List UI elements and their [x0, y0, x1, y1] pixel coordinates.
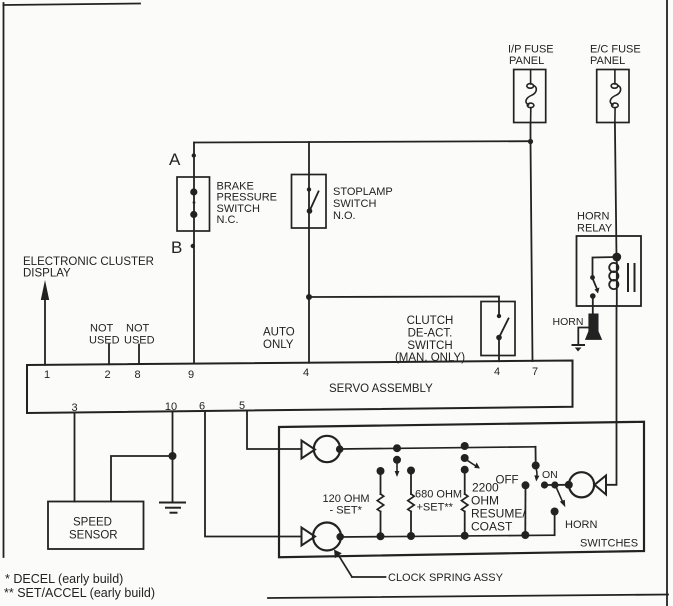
- wire pin 3 to speed sensor: [74, 412, 76, 501]
- node B: [171, 238, 195, 257]
- svg-text:HORN: HORN: [565, 519, 597, 531]
- label SWITCHES: [580, 538, 638, 550]
- label ON: [542, 469, 558, 481]
- svg-text:BRAKE: BRAKE: [217, 181, 254, 193]
- svg-text:4: 4: [303, 367, 309, 379]
- I/P fuse panel label: [508, 44, 554, 68]
- svg-text:SERVO ASSEMBLY: SERVO ASSEMBLY: [329, 383, 433, 395]
- svg-text:STOPLAMP: STOPLAMP: [333, 186, 393, 198]
- svg-text:DE-ACT.: DE-ACT.: [408, 328, 453, 340]
- arrow to cluster display: [41, 280, 49, 365]
- E/C fuse panel box: [597, 70, 629, 123]
- wire pin 6 to buffer B2: [205, 411, 302, 537]
- svg-text:2: 2: [104, 369, 110, 381]
- servo assembly box: [27, 361, 573, 414]
- relay coil: [609, 257, 618, 306]
- svg-text:OHM: OHM: [471, 494, 499, 508]
- horn relay label: [577, 211, 613, 235]
- label HORN (switches): [565, 519, 597, 531]
- svg-text:ONLY: ONLY: [263, 339, 294, 351]
- svg-text:SWITCH: SWITCH: [407, 340, 452, 352]
- footnote SET/ACCEL: [4, 586, 155, 600]
- svg-text:N.C.: N.C.: [217, 214, 239, 226]
- resistor R2 680 ohm: [407, 467, 415, 541]
- on contacts and wire to buffer B3: [541, 481, 573, 489]
- label HORN: [553, 316, 584, 328]
- label 680 OHM +SET**: [415, 489, 462, 514]
- buffer B3 (horn buffer): [569, 472, 606, 497]
- wire branch to speed sensor: [111, 456, 173, 502]
- relay switch: [590, 257, 617, 314]
- svg-text:SWITCH: SWITCH: [217, 203, 260, 215]
- junction stoplamp/clutch: [306, 294, 312, 300]
- svg-text:HORN: HORN: [577, 211, 609, 223]
- svg-text:- SET*: - SET*: [330, 505, 363, 517]
- svg-text:+SET**: +SET**: [417, 502, 454, 514]
- svg-text:COAST: COAST: [471, 520, 513, 534]
- border frame bottom: [268, 595, 668, 599]
- svg-text:DISPLAY: DISPLAY: [23, 268, 71, 280]
- svg-text:N.O.: N.O.: [333, 210, 356, 222]
- clutch de-act switch label: [395, 315, 465, 364]
- horn switches box: [279, 422, 644, 557]
- wire E/C fuse to horn relay: [615, 123, 617, 258]
- svg-text:ELECTRONIC CLUSTER: ELECTRONIC CLUSTER: [23, 256, 154, 268]
- wire pin 5 to buffer B1: [247, 411, 302, 450]
- svg-text:8: 8: [134, 369, 140, 381]
- svg-text:9: 9: [188, 369, 194, 381]
- ground G1: [160, 503, 185, 513]
- svg-text:PANEL: PANEL: [590, 55, 625, 67]
- I/P fuse panel box: [514, 70, 546, 123]
- junction E/C in relay: [612, 253, 621, 262]
- border frame top: [4, 4, 141, 6]
- node A: [169, 150, 196, 169]
- svg-text:1: 1: [44, 369, 50, 381]
- svg-text:USED: USED: [89, 335, 120, 347]
- svg-text:OFF: OFF: [496, 475, 519, 487]
- wire bottom rail: [340, 535, 555, 537]
- svg-text:CLUTCH: CLUTCH: [407, 315, 454, 327]
- relay core: [628, 264, 635, 291]
- electronic cluster display label: [23, 256, 154, 280]
- junction pin 10 branch: [169, 452, 177, 460]
- horn switch lever: [551, 488, 566, 536]
- wire top rail: [340, 447, 536, 449]
- svg-text:NOT: NOT: [90, 323, 114, 335]
- switch -SET (S4): [393, 444, 401, 477]
- horn relay box: [577, 236, 642, 306]
- svg-text:SWITCHES: SWITCHES: [580, 538, 638, 550]
- svg-text:CLOCK SPRING ASSY: CLOCK SPRING ASSY: [388, 572, 504, 584]
- brake pressure switch label: [217, 181, 278, 227]
- label SERVO ASSEMBLY: [329, 383, 433, 395]
- off contact branch: [521, 481, 529, 539]
- svg-text:SPEED: SPEED: [73, 517, 112, 529]
- horn H1 (speaker): [585, 314, 602, 340]
- svg-text:SENSOR: SENSOR: [69, 530, 118, 542]
- svg-text:SWITCH: SWITCH: [333, 198, 376, 210]
- clock spring assy leader: [334, 550, 386, 578]
- wire to clutch switch: [309, 297, 499, 317]
- wire stoplamp branch: [308, 142, 310, 363]
- wire stub pin 8: [138, 345, 140, 365]
- svg-text:B: B: [171, 238, 182, 257]
- resistor R1 120 ohm: [377, 467, 385, 540]
- footnote DECEL: [5, 572, 123, 586]
- svg-text:PRESSURE: PRESSURE: [217, 192, 278, 204]
- border frame right: [666, 0, 668, 606]
- buffer B1 (amplifier): [302, 436, 344, 462]
- label NOT USED (pin 2): [89, 323, 120, 347]
- fuse F2 symbol: [610, 70, 620, 123]
- stoplamp switch label: [333, 186, 393, 222]
- switch ON/OFF lever: [532, 462, 540, 482]
- svg-text:PANEL: PANEL: [509, 55, 544, 67]
- svg-text:HORN: HORN: [553, 316, 584, 328]
- wire junction to servo pin 7: [531, 142, 533, 362]
- wire E/C to buffer B3: [606, 306, 617, 485]
- wire rail corner to ON switch: [535, 447, 537, 463]
- resistor R3 2200 ohm with resume/coast switch: [461, 442, 480, 540]
- wire clutch to servo pin 4: [498, 338, 500, 362]
- speed sensor label: [69, 517, 118, 542]
- label 120 OHM -SET*: [323, 493, 370, 517]
- svg-text:4: 4: [494, 366, 500, 378]
- wire I/P fuse to junction: [530, 123, 532, 142]
- pin numbers top row: [44, 366, 538, 381]
- horn ground wire: [578, 328, 588, 345]
- buffer B2 (clock spring): [302, 523, 345, 551]
- svg-text:ON: ON: [542, 469, 558, 481]
- pin numbers bottom row: [71, 400, 245, 414]
- wire A-line: [194, 141, 531, 142]
- clutch de-act switch S3 box: [481, 302, 515, 356]
- wire brake branch: [193, 143, 195, 364]
- label CLOCK SPRING ASSY: [388, 572, 504, 584]
- fuse F1 symbol: [526, 70, 536, 123]
- stoplamp switch contacts: [307, 187, 319, 214]
- svg-text:RESUME/: RESUME/: [471, 507, 526, 521]
- svg-text:A: A: [169, 150, 181, 169]
- label OFF: [496, 475, 519, 487]
- svg-text:** SET/ACCEL (early build): ** SET/ACCEL (early build): [4, 586, 155, 600]
- speed sensor box: [48, 502, 144, 550]
- brake pressure switch S1 box: [177, 177, 210, 231]
- wire stub pin 2: [108, 345, 110, 365]
- svg-text:NOT: NOT: [126, 323, 150, 335]
- svg-text:5: 5: [239, 400, 245, 412]
- label AUTO ONLY: [263, 327, 295, 352]
- border frame left: [3, 3, 5, 557]
- ground G2: [573, 345, 585, 352]
- label 2200 OHM RESUME/COAST: [471, 481, 526, 534]
- svg-text:680 OHM: 680 OHM: [415, 489, 462, 501]
- clutch de-act switch contacts: [496, 314, 508, 341]
- stoplamp switch S2 box: [292, 175, 327, 229]
- brake pressure switch contacts: [190, 188, 197, 218]
- junction I/P: [528, 139, 533, 144]
- svg-text:I/P FUSE: I/P FUSE: [508, 44, 554, 56]
- svg-text:* DECEL (early build): * DECEL (early build): [5, 572, 123, 586]
- svg-text:RELAY: RELAY: [577, 223, 613, 235]
- wire pin 10 to ground: [172, 411, 174, 502]
- E/C fuse panel label: [590, 44, 641, 68]
- svg-text:120 OHM: 120 OHM: [323, 493, 370, 505]
- label NOT USED (pin 8): [124, 323, 155, 347]
- svg-text:10: 10: [165, 401, 177, 413]
- svg-text:E/C FUSE: E/C FUSE: [590, 44, 641, 56]
- svg-text:AUTO: AUTO: [263, 327, 295, 339]
- svg-text:7: 7: [532, 366, 538, 378]
